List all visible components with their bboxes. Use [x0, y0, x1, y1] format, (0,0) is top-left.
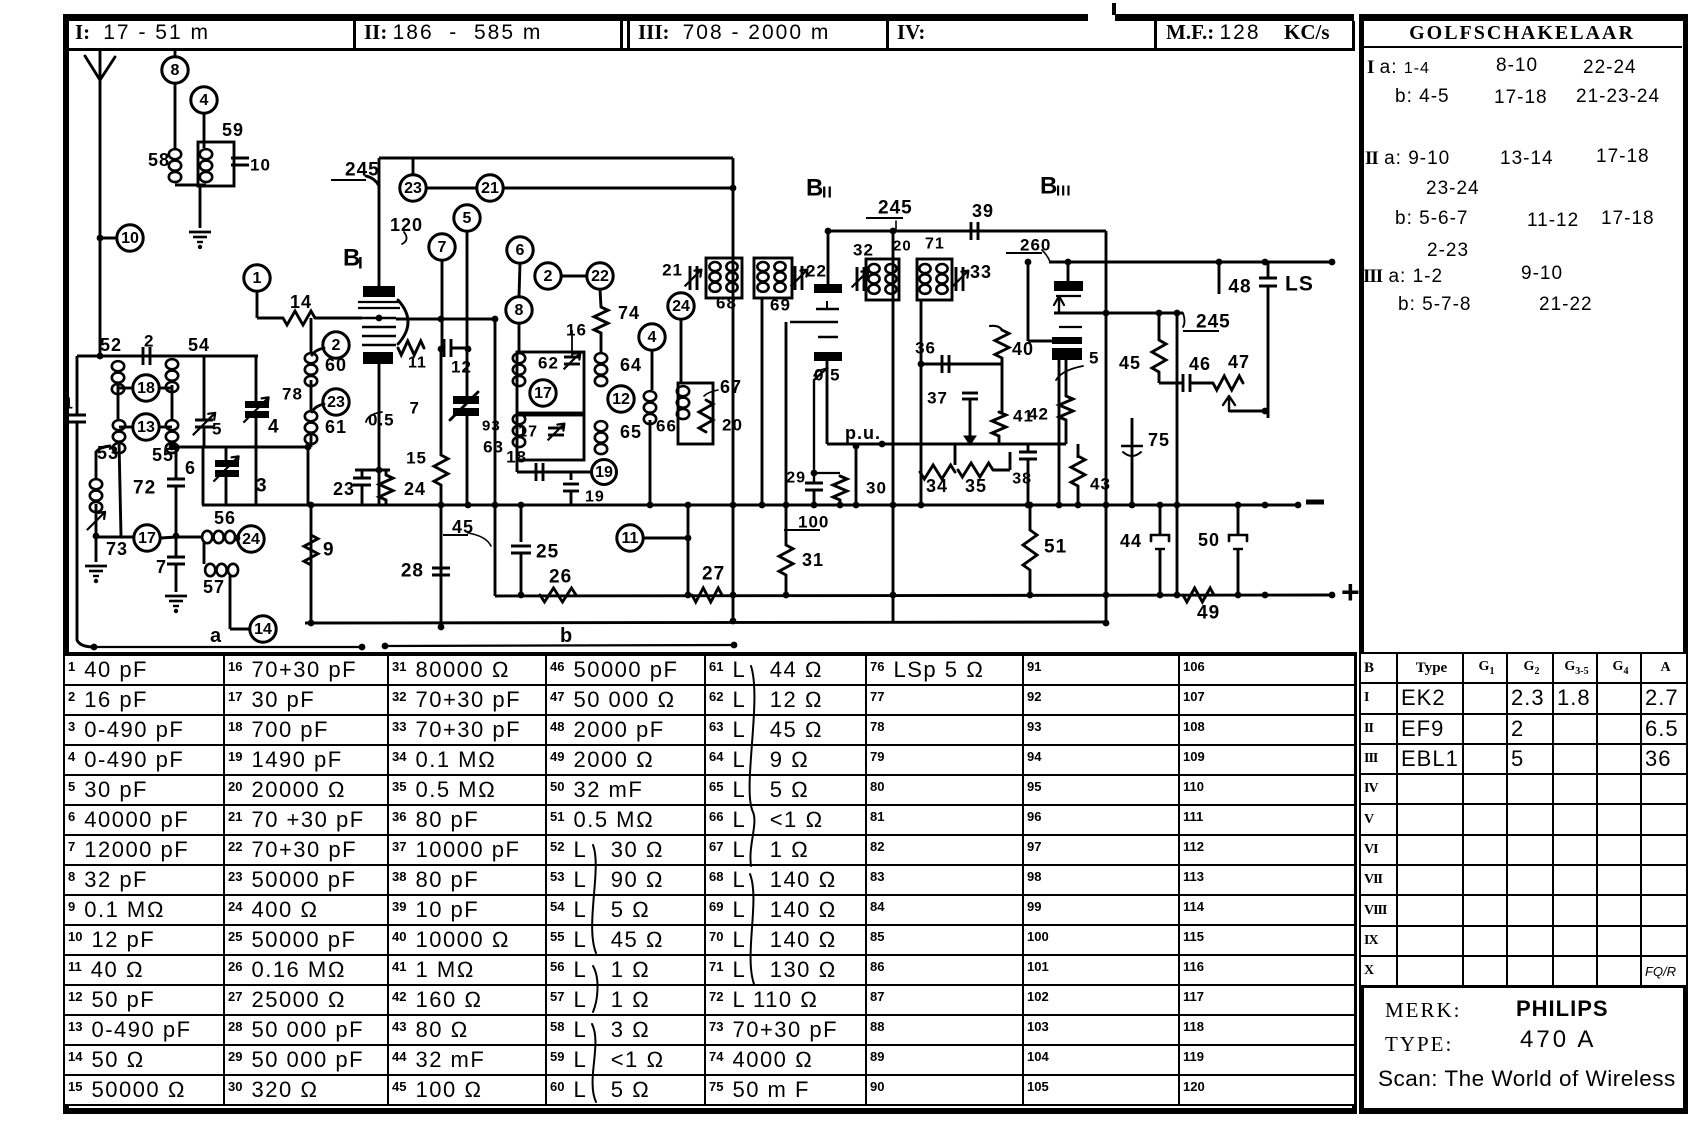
svg-text:62: 62 — [538, 354, 559, 373]
svg-text:52: 52 — [100, 335, 122, 355]
svg-text:35: 35 — [965, 476, 987, 496]
svg-text:I: I — [358, 254, 364, 273]
svg-text:21: 21 — [662, 261, 683, 280]
svg-text:1: 1 — [253, 270, 262, 287]
svg-text:23: 23 — [404, 180, 422, 197]
svg-text:4: 4 — [648, 329, 657, 346]
svg-text:16: 16 — [566, 321, 587, 340]
svg-text:10: 10 — [250, 156, 271, 175]
svg-text:0.5: 0.5 — [368, 411, 395, 430]
svg-text:72: 72 — [133, 478, 156, 499]
svg-text:39: 39 — [972, 201, 994, 221]
svg-text:18: 18 — [506, 448, 527, 467]
svg-text:45: 45 — [1119, 353, 1141, 373]
svg-text:20: 20 — [722, 416, 743, 435]
svg-text:23: 23 — [333, 479, 355, 499]
svg-text:245: 245 — [345, 160, 380, 181]
svg-text:49: 49 — [1197, 603, 1220, 624]
svg-text:7: 7 — [410, 399, 420, 418]
svg-text:54: 54 — [188, 335, 210, 355]
svg-text:14: 14 — [254, 621, 272, 638]
svg-text:7: 7 — [438, 239, 447, 256]
svg-text:46: 46 — [1189, 354, 1211, 374]
svg-text:5: 5 — [212, 420, 222, 439]
svg-text:III: III — [1056, 183, 1072, 200]
svg-text:20: 20 — [893, 238, 912, 255]
svg-text:27: 27 — [702, 564, 725, 585]
svg-text:245: 245 — [878, 198, 913, 219]
svg-text:38: 38 — [1012, 471, 1032, 488]
svg-text:65: 65 — [620, 422, 642, 442]
svg-text:4: 4 — [268, 417, 280, 438]
svg-text:73: 73 — [106, 539, 128, 559]
svg-text:17: 17 — [138, 530, 156, 547]
svg-text:69: 69 — [770, 296, 791, 315]
svg-text:17: 17 — [534, 385, 552, 402]
svg-text:78: 78 — [282, 385, 303, 404]
svg-text:a: a — [210, 625, 222, 647]
svg-text:61: 61 — [325, 417, 347, 437]
svg-text:12: 12 — [451, 358, 472, 377]
svg-text:2: 2 — [544, 268, 553, 285]
svg-text:51: 51 — [1044, 537, 1067, 558]
svg-text:68: 68 — [716, 294, 737, 313]
svg-text:24: 24 — [404, 479, 426, 499]
svg-text:11: 11 — [408, 355, 427, 372]
svg-text:24: 24 — [672, 298, 690, 315]
svg-text:9: 9 — [323, 540, 335, 561]
svg-text:74: 74 — [618, 303, 640, 323]
svg-text:19: 19 — [585, 489, 605, 506]
svg-text:100: 100 — [798, 513, 829, 532]
svg-text:43: 43 — [1090, 475, 1111, 494]
svg-text:33: 33 — [970, 262, 992, 282]
svg-text:23: 23 — [327, 394, 345, 411]
svg-text:31: 31 — [802, 550, 824, 570]
svg-text:63: 63 — [483, 438, 504, 457]
svg-text:p.u.: p.u. — [845, 423, 881, 443]
svg-text:19: 19 — [595, 464, 613, 481]
svg-text:56: 56 — [214, 508, 236, 528]
svg-text:21: 21 — [481, 180, 499, 197]
svg-text:71: 71 — [925, 236, 945, 253]
svg-text:7: 7 — [156, 557, 167, 577]
svg-text:II: II — [822, 185, 833, 202]
svg-text:47: 47 — [1228, 352, 1250, 372]
svg-text:+: + — [1341, 574, 1361, 610]
svg-text:59: 59 — [222, 120, 244, 140]
svg-text:26: 26 — [549, 567, 572, 588]
svg-text:3: 3 — [256, 476, 268, 497]
svg-text:24: 24 — [242, 531, 260, 548]
svg-text:120: 120 — [390, 215, 423, 235]
svg-text:66: 66 — [656, 417, 677, 436]
svg-text:1: 1 — [64, 396, 74, 413]
svg-text:13: 13 — [137, 419, 155, 436]
svg-text:LS: LS — [1285, 273, 1314, 296]
svg-text:6: 6 — [516, 242, 525, 259]
svg-text:17: 17 — [518, 424, 538, 441]
svg-text:5: 5 — [1089, 349, 1099, 368]
svg-text:60: 60 — [325, 355, 347, 375]
svg-text:15: 15 — [406, 449, 427, 468]
svg-text:42: 42 — [1028, 405, 1049, 424]
svg-text:14: 14 — [290, 292, 312, 312]
svg-text:2: 2 — [144, 332, 154, 351]
svg-text:260: 260 — [1020, 236, 1051, 255]
svg-text:50: 50 — [1198, 530, 1220, 550]
svg-text:36: 36 — [915, 339, 936, 358]
svg-text:b: b — [560, 625, 573, 647]
svg-text:25: 25 — [536, 542, 559, 563]
svg-text:11: 11 — [622, 530, 639, 547]
svg-text:22: 22 — [591, 268, 609, 285]
svg-text:245: 245 — [1196, 312, 1231, 333]
svg-text:10: 10 — [121, 230, 139, 247]
svg-text:44: 44 — [1120, 531, 1142, 551]
svg-text:67: 67 — [720, 377, 742, 397]
svg-text:57: 57 — [203, 577, 225, 597]
svg-text:28: 28 — [401, 561, 424, 582]
svg-text:40: 40 — [1012, 339, 1034, 359]
svg-text:2: 2 — [332, 337, 341, 354]
svg-text:4: 4 — [200, 92, 209, 109]
svg-text:37: 37 — [927, 389, 948, 408]
svg-text:75: 75 — [1148, 430, 1170, 450]
svg-text:8: 8 — [515, 302, 524, 319]
svg-text:93: 93 — [482, 418, 501, 435]
svg-text:22: 22 — [806, 262, 827, 281]
svg-text:34: 34 — [926, 476, 948, 496]
svg-text:5: 5 — [463, 210, 472, 227]
svg-text:64: 64 — [620, 355, 642, 375]
svg-text:29: 29 — [786, 470, 806, 487]
svg-text:30: 30 — [866, 479, 887, 498]
svg-text:58: 58 — [148, 150, 170, 170]
svg-text:8: 8 — [171, 62, 180, 79]
svg-text:6: 6 — [185, 458, 196, 478]
svg-text:32: 32 — [853, 241, 874, 260]
svg-text:12: 12 — [612, 391, 630, 408]
svg-text:48: 48 — [1228, 277, 1251, 298]
svg-text:18: 18 — [137, 380, 155, 397]
